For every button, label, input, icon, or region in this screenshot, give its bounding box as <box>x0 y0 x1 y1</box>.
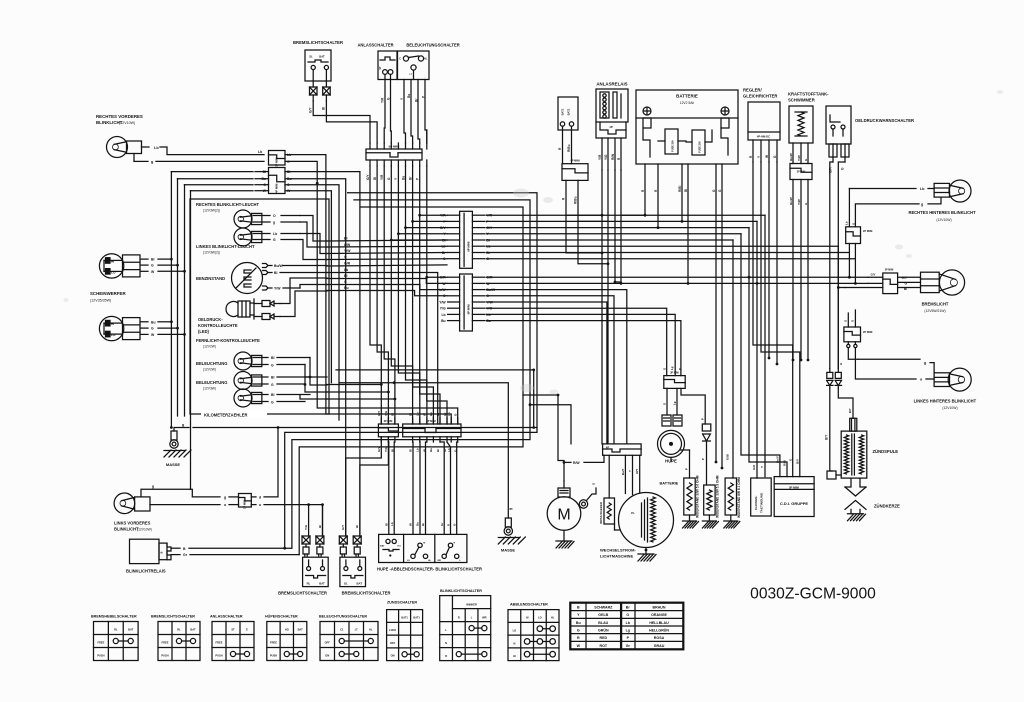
svg-text:Bl: Bl <box>684 189 688 192</box>
svg-text:HO: HO <box>285 627 289 631</box>
svg-text:BREMSLICHT: BREMSLICHT <box>922 302 949 307</box>
svg-text:Bu/Y: Bu/Y <box>776 456 780 463</box>
svg-text:ZUNDSCHALTER: ZUNDSCHALTER <box>387 601 417 605</box>
svg-text:Bu/W: Bu/W <box>274 264 283 268</box>
svg-text:HL: HL <box>369 627 373 631</box>
svg-text:P: P <box>701 458 705 460</box>
svg-text:G/Y: G/Y <box>377 447 381 452</box>
svg-text:FREE: FREE <box>216 640 223 644</box>
svg-text:Bl: Bl <box>322 107 326 110</box>
svg-text:MASSE: MASSE <box>501 548 516 553</box>
svg-text:Y/W: Y/W <box>274 287 281 291</box>
svg-text:g: g <box>921 203 923 207</box>
svg-text:HI: HI <box>513 654 516 658</box>
svg-text:BATTERIE: BATTERIE <box>660 482 679 486</box>
svg-text:G/V: G/V <box>440 226 447 230</box>
svg-text:W: W <box>409 523 413 526</box>
svg-text:G/Y: G/Y <box>871 273 876 277</box>
svg-text:FREE: FREE <box>162 640 169 644</box>
svg-text:HO: HO <box>398 546 402 548</box>
svg-text:G: G <box>271 363 274 367</box>
svg-text:Y: Y <box>760 466 764 468</box>
svg-text:BAT: BAT <box>128 627 134 631</box>
svg-text:Bu/W: Bu/W <box>789 153 793 161</box>
svg-text:Bl: Bl <box>442 238 445 242</box>
svg-text:d: d <box>259 496 261 500</box>
svg-text:BENZINSTAND: BENZINSTAND <box>196 276 225 281</box>
svg-text:WIDERSTAND 33W 5.9 OHM: WIDERSTAND 33W 5.9 OHM <box>715 475 719 518</box>
svg-text:G: G <box>443 257 446 261</box>
svg-text:Bu: Bu <box>441 319 446 323</box>
svg-text:SL: SL <box>309 55 313 59</box>
svg-text:Lg: Lg <box>673 401 677 405</box>
svg-text:Bu: Bu <box>429 448 433 452</box>
svg-text:LOCK: LOCK <box>389 629 396 632</box>
svg-text:Bl: Bl <box>151 258 154 262</box>
svg-text:Lb: Lb <box>441 313 445 317</box>
svg-text:(12V10W): (12V10W) <box>119 121 135 125</box>
svg-text:3P MINI: 3P MINI <box>670 372 679 375</box>
svg-text:g: g <box>152 485 154 489</box>
svg-text:PUSH: PUSH <box>97 653 104 657</box>
svg-text:BAT1: BAT1 <box>401 616 408 619</box>
svg-text:Bl: Bl <box>318 525 322 528</box>
svg-text:B/Y: B/Y <box>796 459 800 464</box>
svg-text:PUSH: PUSH <box>215 653 222 657</box>
svg-text:HELLGRÜN: HELLGRÜN <box>649 628 669 633</box>
svg-text:Y/R: Y/R <box>598 154 602 160</box>
svg-text:(12V2W): (12V2W) <box>203 368 216 372</box>
svg-text:G: G <box>851 320 855 322</box>
svg-text:W: W <box>423 413 427 416</box>
svg-text:GL: GL <box>344 582 348 586</box>
svg-text:G: G <box>663 368 667 370</box>
svg-text:G: G <box>151 327 154 331</box>
svg-text:G: G <box>273 238 276 242</box>
svg-text:g: g <box>924 361 926 365</box>
svg-text:4P MINI: 4P MINI <box>275 183 279 193</box>
svg-text:Bu: Bu <box>344 286 349 290</box>
svg-text:G/Y: G/Y <box>309 107 313 113</box>
svg-text:RECHTES HINTERES BLINKLICHT: RECHTES HINTERES BLINKLICHT <box>909 210 977 215</box>
svg-text:(12V35/35W): (12V35/35W) <box>90 299 111 303</box>
svg-text:Bu/W: Bu/W <box>789 197 793 205</box>
svg-text:ABBLENDSCHALTER: ABBLENDSCHALTER <box>510 603 548 607</box>
svg-text:Lb: Lb <box>258 150 262 154</box>
svg-text:(12V5W/21W): (12V5W/21W) <box>924 309 945 313</box>
svg-text:Bl: Bl <box>271 393 274 397</box>
svg-text:R/Bl: R/Bl <box>783 460 787 466</box>
svg-text:G/R: G/R <box>752 464 756 470</box>
svg-text:g: g <box>182 423 184 427</box>
svg-text:BAT1: BAT1 <box>561 108 565 115</box>
svg-text:B: B <box>577 606 580 610</box>
svg-text:KRAFTSTOFFTANK-: KRAFTSTOFFTANK- <box>788 92 829 97</box>
svg-text:B/Y: B/Y <box>848 408 852 413</box>
svg-text:SCHEINWERFER: SCHEINWERFER <box>90 291 126 296</box>
svg-text:R/Bl: R/Bl <box>678 186 682 192</box>
svg-text:Y/G: Y/G <box>440 307 446 311</box>
svg-text:Y/R: Y/R <box>440 214 446 218</box>
svg-text:CHOKEN-: CHOKEN- <box>754 496 758 510</box>
svg-text:R: R <box>458 615 460 619</box>
svg-text:R/W: R/W <box>611 154 615 160</box>
svg-text:R/Bu: R/Bu <box>574 197 578 204</box>
svg-text:M: M <box>557 507 570 524</box>
svg-text:Lb: Lb <box>344 268 348 272</box>
svg-text:F: F <box>444 220 446 224</box>
svg-text:MASSE: MASSE <box>166 462 181 467</box>
svg-text:Y/G: Y/G <box>384 446 388 452</box>
svg-text:Y/W: Y/W <box>797 199 801 205</box>
svg-text:2P MINI: 2P MINI <box>275 157 279 167</box>
svg-text:Y: Y <box>628 470 632 472</box>
svg-text:REGLER/: REGLER/ <box>743 88 762 93</box>
svg-text:BAT: BAT <box>357 582 363 586</box>
svg-text:BELEUCHTUNGSCHALTER: BELEUCHTUNGSCHALTER <box>319 615 367 619</box>
svg-text:Bl: Bl <box>408 449 412 452</box>
svg-text:Gr: Gr <box>626 644 631 648</box>
svg-text:12V2 5Ah: 12V2 5Ah <box>680 101 695 105</box>
svg-text:GRÜN: GRÜN <box>598 628 609 633</box>
svg-text:BREMSHEBELSCHALTER: BREMSHEBELSCHALTER <box>91 615 137 619</box>
svg-text:PUSH: PUSH <box>161 653 168 657</box>
svg-text:R/Bu: R/Bu <box>567 145 571 152</box>
svg-text:4P: 4P <box>609 125 613 129</box>
svg-text:BATTERIE: BATTERIE <box>676 94 698 99</box>
svg-text:Lb: Lb <box>447 412 451 416</box>
svg-text:BRAUN: BRAUN <box>653 606 666 610</box>
svg-text:HL: HL <box>551 616 555 620</box>
svg-text:R: R <box>577 636 580 640</box>
svg-text:G: G <box>151 264 154 268</box>
svg-text:Bu/Y: Bu/Y <box>621 468 625 475</box>
svg-text:P: P <box>678 368 682 370</box>
svg-text:Bu: Bu <box>429 412 433 416</box>
svg-text:4P-HM-DC: 4P-HM-DC <box>757 135 770 139</box>
svg-text:BLINKLICHTRELAIS: BLINKLICHTRELAIS <box>126 569 166 574</box>
svg-text:Bu: Bu <box>576 621 581 625</box>
svg-text:G: G <box>271 383 274 387</box>
svg-text:FREE: FREE <box>97 640 104 644</box>
svg-text:ST: ST <box>231 627 235 631</box>
svg-text:WECHSELSTROM-: WECHSELSTROM- <box>600 548 636 553</box>
svg-text:WIDERSTAND 33W 5.6 OHM: WIDERSTAND 33W 5.6 OHM <box>696 475 700 518</box>
svg-text:LINKS VORDERES: LINKS VORDERES <box>114 521 151 526</box>
svg-text:G: G <box>844 320 848 322</box>
svg-text:Lb: Lb <box>154 146 159 150</box>
svg-text:O: O <box>273 214 276 218</box>
svg-text:BAT: BAT <box>319 55 325 59</box>
svg-text:BREMSLICHTSCHALTER: BREMSLICHTSCHALTER <box>278 591 327 596</box>
svg-text:Lb: Lb <box>416 448 420 452</box>
svg-text:OELDRUCKWARNSCHALTER: OELDRUCKWARNSCHALTER <box>855 118 914 123</box>
svg-text:G/R: G/R <box>344 262 351 266</box>
svg-text:ROT: ROT <box>600 644 608 648</box>
svg-text:P: P <box>685 468 689 470</box>
svg-text:G/Y: G/Y <box>902 276 908 280</box>
svg-text:SCHWIMMER: SCHWIMMER <box>788 98 815 103</box>
svg-text:g: g <box>446 524 450 526</box>
svg-text:Y/R: Y/R <box>380 174 384 180</box>
svg-text:Bl: Bl <box>373 177 377 180</box>
svg-text:HÜPENSCHALTER: HÜPENSCHALTER <box>265 614 298 619</box>
svg-text:LINKES HINTERES BLINKLICHT: LINKES HINTERES BLINKLICHT <box>914 399 977 404</box>
svg-text:G/R: G/R <box>829 167 833 173</box>
svg-text:G/Y: G/Y <box>366 174 370 180</box>
svg-text:L/W: L/W <box>439 288 446 292</box>
svg-text:FUSE 15A: FUSE 15A <box>672 140 675 152</box>
svg-text:G: G <box>663 403 667 405</box>
svg-text:4P: 4P <box>606 446 610 450</box>
svg-text:RECHTES BLINKLICHT-LEUCHT: RECHTES BLINKLICHT-LEUCHT <box>196 202 259 207</box>
svg-text:LO: LO <box>407 560 410 562</box>
svg-text:WINKER: WINKER <box>466 602 477 606</box>
svg-text:P: P <box>701 418 705 420</box>
svg-text:G/R: G/R <box>440 276 447 280</box>
svg-text:BREMSLICHTSCHALTER: BREMSLICHTSCHALTER <box>151 615 195 619</box>
svg-text:(12V2W): (12V2W) <box>203 345 216 349</box>
svg-text:W: W <box>577 644 581 648</box>
svg-text:BREMSLICHTSCHALTER: BREMSLICHTSCHALTER <box>293 40 343 45</box>
svg-text:2P MINI: 2P MINI <box>863 229 873 233</box>
svg-text:0030Z-GCM-9000: 0030Z-GCM-9000 <box>750 586 876 603</box>
svg-text:RL: RL <box>307 582 311 586</box>
svg-text:O: O <box>443 294 446 298</box>
svg-text:N: N <box>445 641 447 645</box>
svg-text:Bu: Bu <box>151 320 156 324</box>
svg-text:Bl: Bl <box>271 376 274 380</box>
svg-text:P.L: P.L <box>631 511 635 515</box>
svg-text:(12V3W(2)): (12V3W(2)) <box>203 209 220 213</box>
svg-text:Y/G: Y/G <box>604 154 608 160</box>
svg-text:ON: ON <box>325 653 329 657</box>
svg-text:G: G <box>577 629 580 633</box>
svg-text:(12V3W): (12V3W) <box>203 387 216 391</box>
svg-text:OFF: OFF <box>325 640 331 644</box>
svg-text:6P MINI: 6P MINI <box>467 304 471 314</box>
svg-text:Bl: Bl <box>385 523 389 526</box>
svg-text:(LED): (LED) <box>198 329 210 334</box>
svg-text:HUPE -ABBLENDSCHALTER- BLINKLI: HUPE -ABBLENDSCHALTER- BLINKLICHTSCHALTE… <box>377 567 482 572</box>
svg-text:GRAU: GRAU <box>654 644 665 648</box>
svg-text:GLEICHRICHTER: GLEICHRICHTER <box>743 94 777 99</box>
svg-text:ANLASRELAIS: ANLASRELAIS <box>596 82 627 87</box>
svg-text:WIDERSTAND 8W 8.1 OHM: WIDERSTAND 8W 8.1 OHM <box>737 477 741 518</box>
svg-text:G/Bl: G/Bl <box>726 454 730 460</box>
svg-text:FERNLICHT-KONTROLLEUCHTE: FERNLICHT-KONTROLLEUCHTE <box>196 338 260 343</box>
svg-text:LICHTMASCHINE: LICHTMASCHINE <box>600 554 633 559</box>
svg-text:Lb: Lb <box>416 412 420 416</box>
svg-text:C.D.I. GRUPPE: C.D.I. GRUPPE <box>780 501 809 506</box>
svg-text:Bu: Bu <box>416 522 420 526</box>
svg-text:5P MINI: 5P MINI <box>789 485 799 489</box>
svg-text:G: G <box>271 400 274 404</box>
svg-text:BAT: BAT <box>380 545 385 548</box>
svg-text:OFF: OFF <box>390 641 396 645</box>
svg-text:ZÜNDSPULE: ZÜNDSPULE <box>873 449 899 454</box>
svg-text:ZÜNDKERZE: ZÜNDKERZE <box>874 504 900 509</box>
svg-text:N: N <box>513 641 515 645</box>
svg-text:LINKES BLINKLICHT-LEUCHT: LINKES BLINKLICHT-LEUCHT <box>196 244 255 249</box>
svg-text:B: B <box>161 551 164 553</box>
svg-text:BREMSLICHTSCHALTER: BREMSLICHTSCHALTER <box>342 591 391 596</box>
svg-text:2P MINI: 2P MINI <box>863 330 873 334</box>
svg-text:g: g <box>224 496 226 500</box>
svg-text:IMPULSGEBER: IMPULSGEBER <box>599 501 603 524</box>
svg-text:BAT2: BAT2 <box>567 108 571 115</box>
svg-text:Lb: Lb <box>273 232 277 236</box>
svg-text:BELEUCHTUNG: BELEUCHTUNG <box>196 380 227 385</box>
svg-text:(12V10W): (12V10W) <box>137 528 152 532</box>
svg-text:Gr: Gr <box>183 553 188 557</box>
svg-text:R: R <box>445 654 447 658</box>
svg-text:Br: Br <box>442 251 446 255</box>
svg-text:(12V10W): (12V10W) <box>942 406 957 410</box>
svg-text:4P MINI: 4P MINI <box>570 159 580 163</box>
svg-text:HELLBLAU: HELLBLAU <box>649 621 669 625</box>
svg-text:G: G <box>852 223 856 225</box>
svg-text:RL: RL <box>114 627 118 631</box>
svg-text:LO: LO <box>513 629 517 633</box>
svg-text:KONTROLLEUCHTE: KONTROLLEUCHTE <box>198 323 238 328</box>
svg-text:Lb: Lb <box>441 245 445 249</box>
svg-text:BAT1: BAT1 <box>413 616 420 619</box>
svg-text:Br: Br <box>626 606 631 610</box>
svg-text:RED: RED <box>600 636 608 640</box>
svg-text:Bl: Bl <box>344 237 347 241</box>
svg-text:BLAU: BLAU <box>598 621 608 625</box>
svg-text:g: g <box>273 221 275 225</box>
svg-text:2P MINI: 2P MINI <box>243 499 247 509</box>
svg-text:W: W <box>765 155 769 158</box>
svg-text:Bl: Bl <box>355 525 359 528</box>
svg-text:C1: C1 <box>340 627 344 631</box>
svg-text:Y/G: Y/G <box>304 524 308 530</box>
svg-text:Y/W: Y/W <box>797 155 801 161</box>
svg-text:Y/G: Y/G <box>384 410 388 416</box>
svg-text:3P MINI: 3P MINI <box>885 269 894 272</box>
svg-text:BELEUCHTUNG: BELEUCHTUNG <box>196 361 227 366</box>
svg-text:ORANGE: ORANGE <box>651 613 667 617</box>
svg-text:Y/W: Y/W <box>344 249 351 253</box>
svg-text:E: E <box>246 627 248 631</box>
svg-text:g: g <box>509 508 513 510</box>
svg-text:FREE: FREE <box>270 640 277 644</box>
svg-text:BELEUCHTUNGSCHALTER: BELEUCHTUNGSCHALTER <box>406 43 459 48</box>
svg-text:HI: HI <box>526 616 529 620</box>
svg-text:Bl: Bl <box>391 413 395 416</box>
svg-text:FUSE 15A: FUSE 15A <box>699 141 702 153</box>
svg-text:LT: LT <box>355 627 358 631</box>
svg-text:ST: ST <box>379 66 382 70</box>
svg-text:RL: RL <box>177 627 181 631</box>
svg-text:Y/R: Y/R <box>381 97 385 103</box>
svg-text:LO: LO <box>538 616 542 620</box>
svg-text:G/Y: G/Y <box>341 525 345 530</box>
svg-text:Bu: Bu <box>401 176 405 180</box>
svg-text:OELDRUCK-: OELDRUCK- <box>198 317 223 322</box>
svg-text:BAT: BAT <box>298 627 304 631</box>
svg-text:BLINKLICHTSCHALTER: BLINKLICHTSCHALTER <box>440 589 482 593</box>
svg-text:Lb: Lb <box>390 522 394 526</box>
svg-text:C: C <box>399 58 401 61</box>
svg-text:Bl: Bl <box>274 271 277 275</box>
svg-text:3P MINI: 3P MINI <box>797 171 806 174</box>
svg-text:Lg: Lg <box>626 629 630 633</box>
svg-text:W/Y: W/Y <box>635 469 639 474</box>
svg-text:KILOMETERZAEHLER: KILOMETERZAEHLER <box>204 413 247 418</box>
svg-text:ANLASSCHALTER: ANLASSCHALTER <box>210 615 243 619</box>
svg-text:R/W: R/W <box>573 461 580 465</box>
svg-text:GELB: GELB <box>598 613 608 617</box>
svg-text:WR: WR <box>482 615 486 619</box>
svg-text:WR: WR <box>437 560 441 562</box>
svg-text:B/Y: B/Y <box>825 434 829 440</box>
svg-text:Lb: Lb <box>845 221 849 225</box>
svg-text:SCHWARZ: SCHWARZ <box>594 606 613 610</box>
svg-text:(12V3W(2)): (12V3W(2)) <box>203 251 220 255</box>
svg-text:(12V10W): (12V10W) <box>936 218 951 222</box>
svg-text:O: O <box>626 613 629 617</box>
svg-text:ROSA: ROSA <box>654 636 665 640</box>
svg-text:O: O <box>344 255 347 259</box>
svg-text:8P MINI: 8P MINI <box>426 419 436 423</box>
svg-text:TAETINGUNG: TAETINGUNG <box>760 492 764 513</box>
svg-text:RECHTES VORDERES: RECHTES VORDERES <box>96 114 143 119</box>
svg-text:Y/W: Y/W <box>439 300 446 304</box>
svg-text:BAT: BAT <box>190 627 196 631</box>
svg-text:BAT: BAT <box>319 582 325 586</box>
svg-text:BLINKLICHT: BLINKLICHT <box>114 527 139 532</box>
svg-text:ON: ON <box>391 654 395 658</box>
svg-text:Bl: Bl <box>344 274 347 278</box>
svg-text:ANLASSCHALTER: ANLASSCHALTER <box>357 43 393 48</box>
svg-text:Bl: Bl <box>408 413 412 416</box>
svg-text:G: G <box>592 483 596 485</box>
svg-text:6P MINI: 6P MINI <box>467 241 471 251</box>
svg-text:Bl: Bl <box>271 356 274 360</box>
svg-text:PUSH: PUSH <box>270 653 277 657</box>
svg-text:Lg: Lg <box>670 366 674 370</box>
svg-text:HL: HL <box>424 58 428 61</box>
svg-text:G/Y: G/Y <box>377 411 381 416</box>
svg-text:G: G <box>344 280 347 284</box>
